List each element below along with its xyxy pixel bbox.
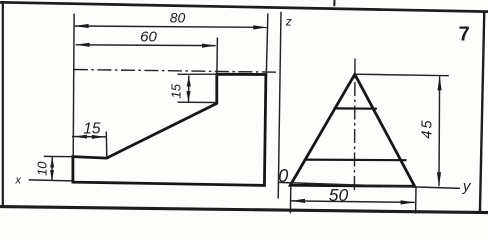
svg-text:60: 60: [140, 29, 157, 46]
svg-text:10: 10: [35, 161, 50, 176]
svg-text:15: 15: [168, 83, 183, 98]
svg-text:15: 15: [83, 121, 101, 138]
svg-text:7: 7: [459, 24, 470, 46]
svg-text:45: 45: [419, 118, 435, 138]
svg-text:x: x: [15, 175, 22, 187]
svg-text:z: z: [285, 15, 292, 29]
svg-text:y: y: [462, 178, 472, 195]
svg-text:80: 80: [170, 10, 186, 26]
svg-text:0: 0: [278, 166, 288, 186]
svg-text:50: 50: [329, 185, 349, 205]
